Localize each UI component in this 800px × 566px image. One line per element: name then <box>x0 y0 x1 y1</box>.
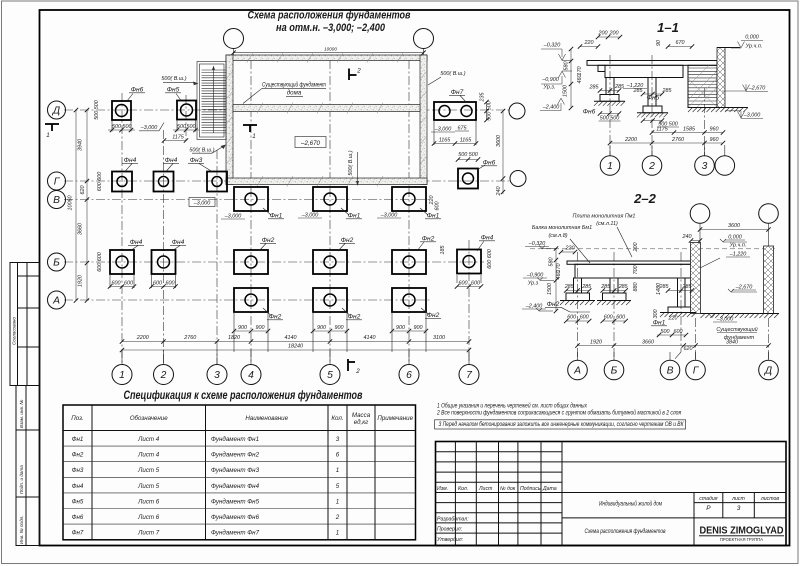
svg-text:3 Перед началом бетонировани: 3 Перед началом бетонирования заложить в… <box>439 421 684 428</box>
svg-text:Фн2: Фн2 <box>269 314 282 321</box>
svg-text:Лист 4: Лист 4 <box>137 452 160 459</box>
svg-text:500 500: 500 500 <box>600 116 620 122</box>
svg-text:3840: 3840 <box>726 340 738 346</box>
svg-text:Фн1: Фн1 <box>270 213 283 220</box>
svg-text:Инв. № подл.: Инв. № подл. <box>19 515 24 544</box>
svg-text:500( В.ш.): 500( В.ш.) <box>161 76 186 82</box>
svg-text:Лист 6: Лист 6 <box>137 498 160 505</box>
svg-text:–3,000: –3,000 <box>380 213 398 219</box>
svg-text:900: 900 <box>256 325 265 331</box>
svg-text:DENIS ZIMOGLYAD: DENIS ZIMOGLYAD <box>700 526 784 537</box>
svg-text:В: В <box>53 195 60 206</box>
svg-text:Фн1: Фн1 <box>72 436 84 443</box>
svg-text:1175: 1175 <box>656 127 669 133</box>
svg-text:600: 600 <box>580 315 589 321</box>
svg-text:В: В <box>667 366 674 377</box>
svg-text:220: 220 <box>668 316 678 322</box>
svg-text:Утвердил:: Утвердил: <box>437 537 464 543</box>
svg-text:Фн2: Фн2 <box>348 314 361 321</box>
svg-text:Фн2: Фн2 <box>72 452 84 459</box>
svg-text:Изм.: Изм. <box>437 486 448 492</box>
svg-text:Ур.з.: Ур.з. <box>543 85 556 91</box>
svg-text:–0,320: –0,320 <box>528 241 546 247</box>
svg-text:1585: 1585 <box>683 127 696 133</box>
svg-text:6: 6 <box>336 452 340 459</box>
svg-text:4140: 4140 <box>364 335 376 341</box>
svg-text:Дата: Дата <box>542 486 557 492</box>
svg-text:300: 300 <box>653 310 659 319</box>
svg-text:18240: 18240 <box>288 344 303 350</box>
svg-text:Фн2: Фн2 <box>341 237 354 244</box>
svg-text:Фн1: Фн1 <box>348 213 361 220</box>
svg-text:Согласовано: Согласовано <box>12 317 17 345</box>
svg-text:6: 6 <box>406 370 412 381</box>
svg-text:460: 460 <box>577 75 583 84</box>
svg-text:Проверил:: Проверил: <box>437 527 463 533</box>
svg-text:600: 600 <box>616 315 625 321</box>
svg-text:600: 600 <box>153 281 162 287</box>
svg-text:Фундамент Фн5: Фундамент Фн5 <box>211 498 260 505</box>
svg-text:2: 2 <box>335 514 340 521</box>
svg-text:240: 240 <box>496 187 502 197</box>
svg-text:1165: 1165 <box>460 138 473 144</box>
svg-text:Фн3: Фн3 <box>72 467 84 474</box>
svg-text:Фн2: Фн2 <box>422 236 435 243</box>
svg-text:листов: листов <box>760 496 780 502</box>
svg-text:500( В.ш.): 500( В.ш.) <box>440 71 465 77</box>
svg-text:5: 5 <box>327 370 333 381</box>
svg-text:Разработал:: Разработал: <box>437 517 469 523</box>
svg-text:5: 5 <box>336 483 340 490</box>
svg-text:2: 2 <box>356 68 361 75</box>
svg-text:–3,000: –3,000 <box>224 214 242 220</box>
svg-text:Фн4: Фн4 <box>172 239 185 246</box>
svg-text:–3,000: –3,000 <box>301 213 319 219</box>
svg-text:90: 90 <box>656 40 662 46</box>
svg-text:285: 285 <box>662 88 673 94</box>
svg-text:600 600: 600 600 <box>487 249 493 269</box>
svg-text:1: 1 <box>336 498 339 505</box>
svg-text:1: 1 <box>252 133 255 140</box>
svg-text:Лист: Лист <box>478 486 493 492</box>
svg-text:3100: 3100 <box>433 335 445 341</box>
svg-text:Кол.: Кол. <box>458 486 468 492</box>
svg-text:900: 900 <box>414 325 423 331</box>
svg-text:№ док: № док <box>500 486 516 492</box>
svg-text:1: 1 <box>46 132 49 139</box>
svg-text:500( В.ш.): 500( В.ш.) <box>348 150 354 175</box>
svg-text:3600: 3600 <box>496 135 502 147</box>
svg-text:Фн6: Фн6 <box>72 514 84 521</box>
svg-text:670: 670 <box>676 40 685 46</box>
svg-text:Кол.: Кол. <box>331 415 343 422</box>
svg-text:Подп. и дата: Подп. и дата <box>19 465 24 494</box>
svg-text:–2,400: –2,400 <box>525 304 543 310</box>
svg-text:–3,000: –3,000 <box>434 127 452 133</box>
svg-text:Фн4: Фн4 <box>72 483 84 490</box>
svg-text:–0,900: –0,900 <box>541 77 559 83</box>
svg-text:–2,670: –2,670 <box>735 285 753 291</box>
svg-text:1500: 1500 <box>563 85 569 97</box>
svg-text:–2,400: –2,400 <box>542 105 560 111</box>
svg-text:500: 500 <box>112 124 121 130</box>
svg-text:–3,000: –3,000 <box>140 125 158 131</box>
svg-text:Фн2: Фн2 <box>427 312 440 319</box>
svg-text:Спецификация к схеме расположе: Спецификация к схеме расположения фундам… <box>124 388 363 402</box>
svg-text:220: 220 <box>565 246 575 252</box>
svg-text:Ур.ч.п.: Ур.ч.п. <box>745 44 763 50</box>
svg-text:–3,000: –3,000 <box>716 317 734 323</box>
svg-text:620: 620 <box>684 346 693 352</box>
svg-text:3: 3 <box>214 370 220 381</box>
svg-text:Фн2: Фн2 <box>547 301 560 308</box>
svg-text:Фн5: Фн5 <box>647 95 660 102</box>
svg-text:4140: 4140 <box>285 335 297 341</box>
svg-text:Фн5: Фн5 <box>167 87 180 94</box>
svg-text:500: 500 <box>123 124 132 130</box>
svg-text:Фн4: Фн4 <box>130 239 143 246</box>
svg-text:1500: 1500 <box>547 283 553 295</box>
svg-text:170: 170 <box>577 67 583 76</box>
svg-text:Схема расположения фундаментов: Схема расположения фундаментов <box>248 10 411 22</box>
svg-text:3: 3 <box>737 505 741 512</box>
svg-text:2: 2 <box>355 368 360 375</box>
svg-text:2–2: 2–2 <box>633 191 656 206</box>
svg-text:675: 675 <box>458 126 468 132</box>
svg-text:3660: 3660 <box>78 223 84 235</box>
svg-text:Б: Б <box>53 257 60 268</box>
svg-text:600: 600 <box>674 329 683 335</box>
svg-text:Ур.з: Ур.з <box>527 281 539 287</box>
svg-text:–0,320: –0,320 <box>543 43 561 49</box>
svg-text:Фн4: Фн4 <box>124 157 137 164</box>
svg-text:Фн1: Фн1 <box>653 320 666 327</box>
svg-text:1 Общие указания и перечень: 1 Общие указания и перечень чертежей см.… <box>437 403 588 410</box>
svg-text:1920: 1920 <box>78 275 84 287</box>
svg-text:200: 200 <box>633 243 639 253</box>
svg-text:1–1: 1–1 <box>657 20 679 35</box>
svg-text:285: 285 <box>682 284 693 290</box>
svg-text:Б: Б <box>611 366 618 377</box>
svg-text:ед,кг: ед,кг <box>354 419 368 426</box>
svg-text:А: А <box>52 295 60 306</box>
svg-text:600: 600 <box>112 281 121 287</box>
svg-text:600 600: 600 600 <box>97 172 103 192</box>
svg-text:–1,220: –1,220 <box>729 252 747 258</box>
svg-text:600: 600 <box>567 315 576 321</box>
svg-text:Лист 5: Лист 5 <box>137 467 160 474</box>
svg-text:500 500: 500 500 <box>94 100 100 120</box>
svg-text:Существующий фундамент: Существующий фундамент <box>262 82 326 89</box>
svg-text:2 Все поверхности фундаменто: 2 Все поверхности фундаментов соприкасаю… <box>436 410 681 417</box>
svg-text:580: 580 <box>549 258 555 267</box>
svg-text:Лист 5: Лист 5 <box>137 483 160 490</box>
svg-text:стадия: стадия <box>699 496 717 502</box>
svg-text:Наименование: Наименование <box>245 415 288 422</box>
svg-text:Лист 7: Лист 7 <box>137 530 160 537</box>
svg-text:2: 2 <box>160 370 167 381</box>
svg-text:(см.л.8): (см.л.8) <box>548 233 567 239</box>
svg-text:на отм.н. –3,000; –2,400: на отм.н. –3,000; –2,400 <box>276 22 385 34</box>
svg-text:500: 500 <box>661 329 670 335</box>
svg-text:500 500: 500 500 <box>458 152 478 158</box>
svg-text:0,000: 0,000 <box>745 35 759 41</box>
svg-text:лист: лист <box>731 496 745 502</box>
svg-text:1920: 1920 <box>590 340 602 346</box>
svg-text:3940: 3940 <box>78 139 84 151</box>
svg-text:Лист 6: Лист 6 <box>137 514 160 521</box>
svg-text:620: 620 <box>80 186 86 195</box>
svg-text:Существующий: Существующий <box>716 326 757 333</box>
svg-text:900: 900 <box>238 325 247 331</box>
svg-text:960: 960 <box>710 127 719 133</box>
svg-text:2200: 2200 <box>624 137 637 143</box>
svg-text:1: 1 <box>607 161 613 172</box>
svg-text:Схема расположения фундаментов: Схема расположения фундаментов <box>585 527 666 535</box>
svg-text:Фн5: Фн5 <box>72 498 84 505</box>
svg-text:1165: 1165 <box>439 138 452 144</box>
svg-text:Фн6: Фн6 <box>583 109 596 116</box>
svg-text:Балка монолитная Бм1: Балка монолитная Бм1 <box>532 225 592 231</box>
svg-text:500( В.ш.): 500( В.ш.) <box>189 148 214 154</box>
svg-text:285: 285 <box>600 284 611 290</box>
svg-text:Фн1: Фн1 <box>427 213 440 220</box>
svg-text:1: 1 <box>336 467 339 474</box>
svg-text:600 600: 600 600 <box>97 252 103 272</box>
svg-text:Фундамент Фн6: Фундамент Фн6 <box>211 514 260 521</box>
svg-text:–2,670: –2,670 <box>748 86 766 92</box>
svg-text:3600: 3600 <box>728 223 740 229</box>
svg-text:285: 285 <box>564 284 575 290</box>
svg-text:Фн7: Фн7 <box>72 530 84 537</box>
svg-text:600: 600 <box>166 281 175 287</box>
svg-text:220: 220 <box>584 40 594 46</box>
svg-text:1: 1 <box>336 530 339 537</box>
svg-text:1175: 1175 <box>172 134 185 140</box>
svg-text:Фн3: Фн3 <box>190 157 203 164</box>
svg-text:Лист 4: Лист 4 <box>137 436 160 443</box>
svg-text:–3,000: –3,000 <box>743 113 761 119</box>
svg-text:Примечание: Примечание <box>377 415 413 422</box>
svg-text:дома: дома <box>287 90 302 97</box>
svg-text:200: 200 <box>598 31 608 37</box>
svg-text:Фундамент Фн2: Фундамент Фн2 <box>211 452 260 459</box>
svg-text:1480: 1480 <box>656 283 662 295</box>
svg-text:Взам. инв. №: Взам. инв. № <box>19 400 24 428</box>
svg-text:А: А <box>573 366 581 377</box>
svg-text:960: 960 <box>710 137 719 143</box>
svg-text:1: 1 <box>119 370 125 381</box>
svg-text:Масса: Масса <box>352 412 371 419</box>
svg-text:500: 500 <box>177 124 186 130</box>
svg-text:235: 235 <box>480 92 486 103</box>
svg-text:2760: 2760 <box>183 335 196 341</box>
svg-text:0,000: 0,000 <box>728 235 742 241</box>
svg-text:460: 460 <box>556 271 562 280</box>
svg-text:285: 285 <box>589 85 600 91</box>
svg-text:Фн6: Фн6 <box>131 87 144 94</box>
svg-text:3: 3 <box>702 161 708 172</box>
svg-text:Фн2: Фн2 <box>262 237 275 244</box>
svg-text:185: 185 <box>440 245 446 255</box>
svg-text:900: 900 <box>335 325 344 331</box>
svg-text:2760: 2760 <box>671 137 684 143</box>
svg-text:Фн4: Фн4 <box>481 235 494 242</box>
svg-text:2: 2 <box>648 161 655 172</box>
svg-text:240: 240 <box>682 234 692 240</box>
svg-text:285: 285 <box>618 284 629 290</box>
svg-text:Фундамент Фн3: Фундамент Фн3 <box>211 467 260 474</box>
svg-text:Фн4: Фн4 <box>165 157 178 164</box>
svg-text:(см.л.11): (см.л.11) <box>596 221 618 227</box>
svg-text:Р: Р <box>706 505 711 512</box>
svg-text:500 500: 500 500 <box>487 101 493 121</box>
svg-text:285: 285 <box>614 84 625 90</box>
svg-text:600: 600 <box>604 315 613 321</box>
svg-text:–0,900: –0,900 <box>526 273 544 279</box>
svg-text:Д: Д <box>764 366 772 377</box>
svg-text:900: 900 <box>317 325 326 331</box>
svg-text:Фундамент Фн1: Фундамент Фн1 <box>211 436 259 443</box>
svg-text:–3,000: –3,000 <box>193 201 211 207</box>
svg-text:Фн7: Фн7 <box>451 89 464 96</box>
svg-text:2200: 2200 <box>136 335 149 341</box>
svg-text:10060: 10060 <box>68 196 74 211</box>
svg-text:Ур.ч.п.: Ур.ч.п. <box>729 243 747 249</box>
svg-text:3660: 3660 <box>642 340 654 346</box>
svg-text:880: 880 <box>633 283 639 292</box>
svg-text:4: 4 <box>248 370 254 381</box>
svg-text:700: 700 <box>633 266 639 275</box>
svg-text:Плита монолитная Пм1: Плита монолитная Пм1 <box>573 214 636 220</box>
svg-text:Индивидуальный жилой дом: Индивидуальный жилой дом <box>599 500 662 508</box>
svg-text:Фундамент Фн7: Фундамент Фн7 <box>211 530 260 537</box>
svg-text:Поз.: Поз. <box>71 415 83 422</box>
svg-text:10000: 10000 <box>324 46 337 51</box>
svg-text:Д: Д <box>52 105 60 116</box>
svg-text:600: 600 <box>471 281 480 287</box>
svg-text:200: 200 <box>609 31 619 37</box>
svg-text:3: 3 <box>336 436 340 443</box>
svg-text:285: 285 <box>581 284 592 290</box>
svg-text:Фундамент Фн4: Фундамент Фн4 <box>211 483 260 490</box>
svg-text:–2,670: –2,670 <box>300 140 320 147</box>
svg-text:500: 500 <box>187 124 196 130</box>
svg-text:Подпись: Подпись <box>520 486 541 492</box>
svg-text:580: 580 <box>564 62 570 71</box>
svg-text:Обозначение: Обозначение <box>130 415 168 422</box>
svg-text:600: 600 <box>124 281 133 287</box>
svg-text:–1,220: –1,220 <box>626 83 644 89</box>
svg-text:600: 600 <box>459 281 468 287</box>
svg-text:600: 600 <box>435 202 441 211</box>
svg-text:ПРОЕКТНАЯ ГРУППА: ПРОЕКТНАЯ ГРУППА <box>720 537 763 542</box>
svg-text:900: 900 <box>396 325 405 331</box>
